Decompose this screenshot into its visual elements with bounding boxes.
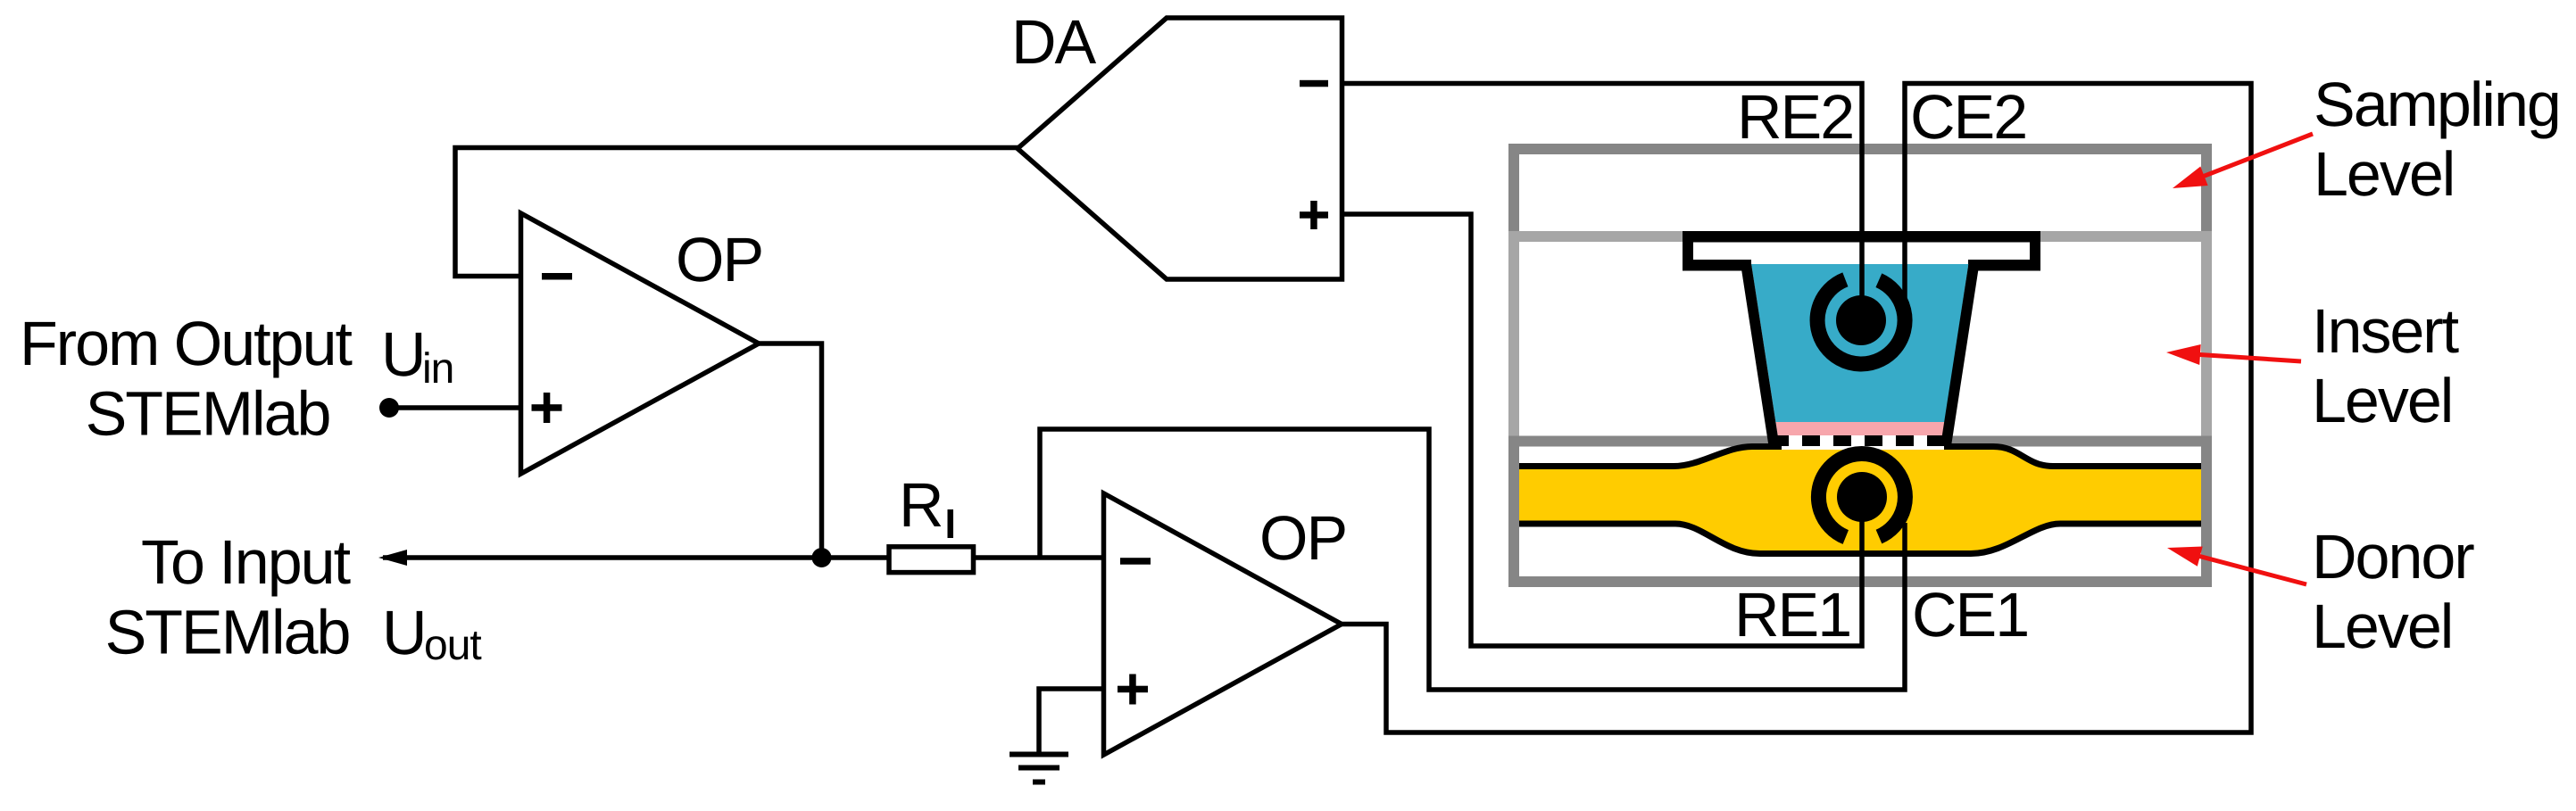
- svg-text:out: out: [424, 622, 481, 669]
- insert cup right wall: [1940, 261, 1980, 446]
- insert cup left wall: [1741, 261, 1780, 446]
- membrane backing: [1782, 434, 1944, 450]
- insert cup interior liquid (blue): [1751, 264, 1968, 435]
- cell donor-level box: [1514, 442, 2206, 583]
- insert cup hat left underside: [1683, 260, 1751, 271]
- insert cup hat top bar: [1683, 231, 2040, 243]
- svg-text:U: U: [381, 319, 425, 389]
- resistor RI: [889, 547, 974, 573]
- junction node at output: [812, 548, 832, 567]
- wire: DA non-inverting input to RE1: [1342, 214, 1862, 646]
- svg-text:R: R: [899, 470, 943, 540]
- insert cup hat right underside: [1968, 260, 2040, 271]
- arrowhead: to input STEMlab: [378, 550, 407, 566]
- insert cup acceptor layer (pink): [1775, 422, 1944, 435]
- svg-text:Level: Level: [2314, 139, 2454, 209]
- svg-text:OP: OP: [676, 225, 762, 294]
- membrane (dashed): [1771, 435, 1945, 446]
- donor channel bottom outline: [1519, 524, 2201, 554]
- wire: OP2 non-inverting input to ground: [1039, 689, 1103, 754]
- electrode RE1/CE1 ring (counter electrode in channel): [1818, 454, 1905, 537]
- DA plus: [1300, 211, 1328, 219]
- op-amp OP1 plus: [532, 404, 562, 411]
- svg-text:Insert: Insert: [2312, 296, 2459, 366]
- wire: OP1 output down to output node: [759, 343, 822, 558]
- svg-text:RE1: RE1: [1734, 580, 1850, 650]
- insert cup hat left end: [1683, 231, 1693, 271]
- wire: OP2 feedback loop to CE1: [1040, 429, 1905, 690]
- op-amp OP2: [1104, 493, 1342, 755]
- red arrow to insert level: [2197, 354, 2301, 361]
- svg-text:To Input: To Input: [141, 527, 351, 597]
- op-amp OP2 minus: [1120, 558, 1151, 565]
- svg-text:Donor: Donor: [2312, 522, 2474, 592]
- wire: main output line (Uout) through RI to OP2 inverting input: [383, 555, 1103, 560]
- wire: DA inverting input to RE2: [1342, 84, 1862, 321]
- electrode RE2/CE2 ring (counter electrode in insert): [1817, 279, 1905, 364]
- svg-text:STEMlab: STEMlab: [105, 598, 350, 667]
- electrode RE1 dot (in channel): [1837, 472, 1887, 522]
- svg-text:Level: Level: [2312, 592, 2452, 661]
- insert cup hat right end: [2030, 231, 2040, 271]
- svg-text:STEMlab: STEMlab: [86, 379, 330, 449]
- differential amplifier DA: [1018, 18, 1342, 279]
- wire: OP2 output loop to CE2: [1342, 84, 2251, 733]
- svg-text:OP: OP: [1259, 503, 1346, 573]
- electrode RE2 dot (in insert): [1836, 295, 1886, 345]
- svg-text:in: in: [422, 345, 453, 393]
- wire: Uin to OP1 non-inverting input: [389, 405, 520, 410]
- cell sampling-level box: [1514, 149, 2206, 236]
- ground symbol: [1010, 755, 1068, 782]
- DA minus: [1300, 80, 1328, 87]
- svg-text:Level: Level: [2312, 366, 2452, 435]
- svg-text:Sampling: Sampling: [2314, 70, 2560, 139]
- donor channel top outline left: [1519, 447, 1782, 467]
- donor channel top outline right: [1944, 447, 2201, 467]
- red arrow to donor level: [2197, 556, 2306, 584]
- cell insert-level box: [1514, 236, 2206, 442]
- op-amp OP1: [521, 213, 760, 474]
- svg-text:U: U: [382, 598, 426, 667]
- wire: DA output to OP1 inverting input: [455, 148, 1018, 277]
- svg-text:DA: DA: [1011, 7, 1097, 77]
- junction node at Uin: [379, 398, 399, 418]
- svg-text:RE2: RE2: [1737, 82, 1853, 152]
- svg-text:CE2: CE2: [1910, 82, 2026, 152]
- red arrow to sampling level: [2201, 134, 2313, 178]
- svg-text:From Output: From Output: [20, 309, 352, 378]
- donor channel (yellow): [1519, 447, 2201, 554]
- svg-text:CE1: CE1: [1912, 580, 2028, 650]
- op-amp OP2 plus: [1118, 686, 1148, 693]
- op-amp OP1 minus: [542, 273, 572, 280]
